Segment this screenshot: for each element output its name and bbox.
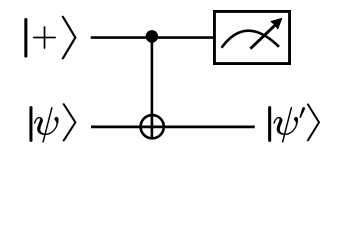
wire vertical (control line) <box>151 37 154 140</box>
wire bottom (qubit 2) <box>91 126 255 129</box>
measurement meter M1 (box) <box>214 11 289 63</box>
meter dial arc <box>222 31 280 48</box>
ket label |psi'&gt; (qubit 2 output state) <box>268 104 320 143</box>
CNOT target X1 (xor circle on qubit 2) <box>141 115 164 138</box>
meter needle arrowhead <box>271 19 281 29</box>
meter needle <box>250 23 277 48</box>
control dot (CNOT control on qubit 1) <box>146 30 159 43</box>
wire top (qubit 1) <box>91 36 215 39</box>
ket label |psi&gt; (qubit 2 input state) <box>30 103 77 142</box>
ket label |+&gt; (qubit 1 input state) <box>25 16 77 59</box>
